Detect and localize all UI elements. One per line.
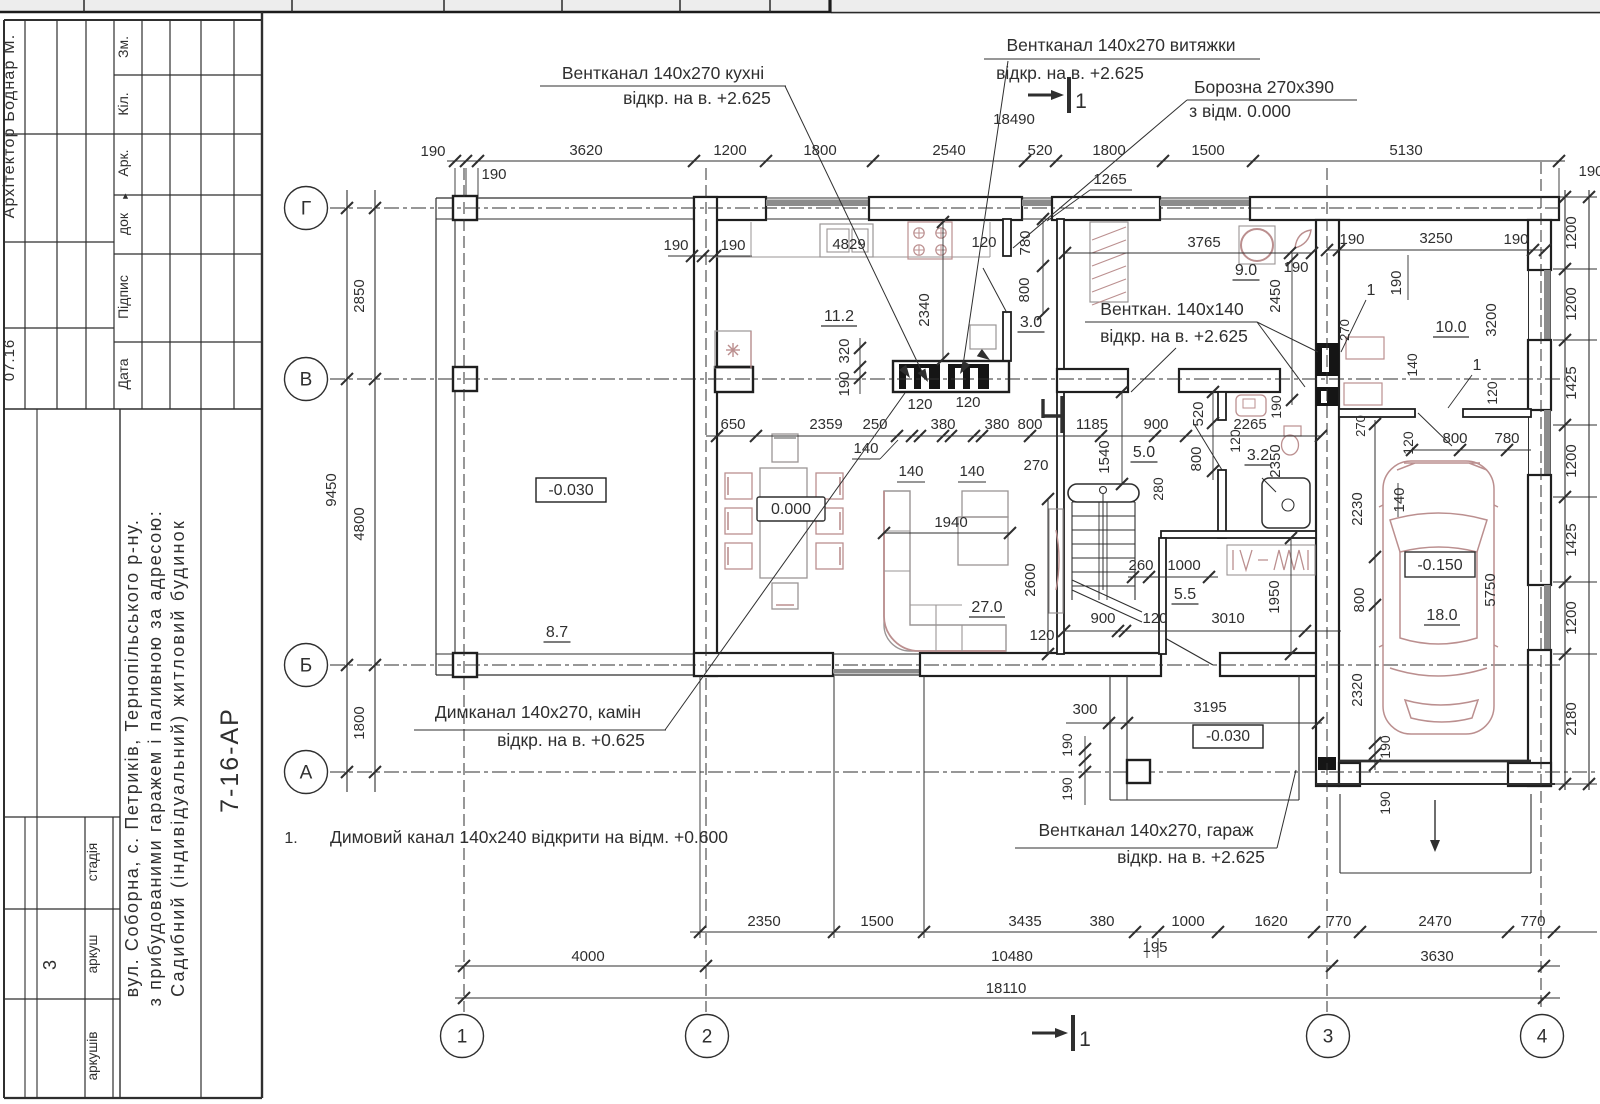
garage driveway apron — [1339, 794, 1341, 873]
svg-text:0.000: 0.000 — [771, 501, 811, 518]
dim 2600 stairs — [1047, 499, 1049, 654]
sofa corner living room — [884, 491, 1006, 651]
top table heavy separator — [828, 0, 831, 13]
porch column — [1127, 760, 1150, 783]
svg-text:1800: 1800 — [351, 706, 368, 739]
svg-text:190: 190 — [720, 237, 745, 254]
top table column separators — [83, 0, 85, 12]
axis line 3 vertical — [1326, 168, 1328, 1012]
terrace outline outer — [436, 197, 694, 199]
svg-text:7-16-АР: 7-16-АР — [216, 707, 244, 813]
svg-text:відкр. на в. +0.625: відкр. на в. +0.625 — [497, 730, 645, 750]
boiler equipment rect 2 — [1344, 383, 1382, 405]
top dim chain line — [447, 160, 1565, 162]
svg-text:140: 140 — [1391, 487, 1408, 512]
leader ventkan 140x140 a — [1257, 322, 1318, 352]
svg-text:120: 120 — [1400, 431, 1416, 455]
svg-text:190: 190 — [420, 143, 445, 160]
svg-text:1200: 1200 — [1563, 601, 1580, 634]
fireplace flue assembly outline — [893, 361, 1009, 392]
svg-text:07.16: 07.16 — [1, 339, 18, 382]
svg-text:3: 3 — [40, 960, 60, 970]
svg-text:120: 120 — [955, 394, 980, 411]
stair handrail pill — [1068, 484, 1139, 502]
right exterior wall segment a — [1528, 220, 1551, 270]
dim 2340 vertical — [942, 222, 944, 359]
svg-text:190: 190 — [663, 237, 688, 254]
coat hanger symbol — [1227, 545, 1315, 575]
svg-text:320: 320 — [836, 338, 853, 363]
svg-text:1940: 1940 — [934, 514, 967, 531]
left dim line total 9450 — [346, 190, 348, 792]
svg-text:190: 190 — [1503, 231, 1528, 248]
leader dymkanal kamin — [665, 393, 905, 730]
dim 190 kitchen corner — [668, 255, 752, 257]
right exterior wall segment c — [1528, 475, 1551, 585]
bath partition lower — [1218, 470, 1226, 538]
terrace column at Б — [453, 653, 477, 677]
top table bottom border line — [0, 11, 831, 14]
title block bottom border — [4, 1097, 262, 1099]
garage flue block near А — [1318, 757, 1336, 770]
svg-text:4: 4 — [1537, 1027, 1548, 1048]
ventilation block axis3 upper black — [1316, 343, 1339, 376]
svg-text:300: 300 — [1072, 701, 1097, 718]
svg-text:1: 1 — [457, 1027, 468, 1048]
svg-text:Димканал 140х270, камін: Димканал 140х270, камін — [435, 702, 641, 722]
svg-text:10.0: 10.0 — [1435, 319, 1466, 336]
svg-text:190: 190 — [1388, 270, 1405, 295]
top wall segment 1 — [694, 197, 766, 220]
svg-text:Садибний (індивідуальний) житл: Садибний (індивідуальний) житловий будин… — [168, 519, 188, 997]
dim 1940 sofa — [884, 532, 1010, 534]
south wall Б segment 1 — [694, 653, 833, 676]
title block lower-left rows — [4, 816, 120, 818]
bottom dim chain 2 — [455, 965, 1560, 967]
svg-text:5130: 5130 — [1389, 142, 1422, 159]
svg-text:520: 520 — [1190, 401, 1207, 426]
driveway down arrow — [1434, 800, 1436, 845]
terrace level mark -0.030 — [536, 478, 606, 502]
svg-text:190: 190 — [836, 371, 853, 396]
top wall segment 4 — [1250, 197, 1559, 220]
svg-text:3620: 3620 — [569, 142, 602, 159]
dining table — [760, 468, 807, 578]
svg-text:А: А — [300, 763, 313, 784]
svg-text:190: 190 — [1578, 163, 1600, 180]
title block horizontal rows right part — [114, 74, 262, 76]
entrance porch outline — [1109, 676, 1111, 800]
svg-text:140: 140 — [1404, 353, 1420, 377]
svg-text:1: 1 — [1075, 90, 1087, 113]
svg-text:Дата: Дата — [115, 358, 131, 389]
right exterior wall segment d — [1528, 650, 1551, 786]
dining chairs right — [816, 473, 843, 499]
svg-text:270: 270 — [1023, 457, 1048, 474]
svg-text:18.0: 18.0 — [1426, 607, 1457, 624]
svg-text:2230: 2230 — [1349, 492, 1366, 525]
svg-text:2320: 2320 — [1349, 673, 1366, 706]
section mark 1 bottom — [1032, 1032, 1062, 1035]
kitchen stove — [908, 222, 952, 259]
axis bubble 1 — [441, 1015, 484, 1058]
axis bubble В — [285, 358, 328, 401]
svg-text:Вентканал 140х270, гараж: Вентканал 140х270, гараж — [1038, 820, 1253, 840]
svg-text:3250: 3250 — [1419, 230, 1452, 247]
axis bubble 4 — [1521, 1015, 1564, 1058]
svg-text:Арк.: Арк. — [115, 149, 131, 176]
svg-text:Підпис: Підпис — [115, 275, 131, 319]
right wall window b — [1528, 410, 1530, 475]
svg-text:2: 2 — [702, 1027, 713, 1048]
svg-text:260: 260 — [1128, 557, 1153, 574]
svg-text:120: 120 — [1227, 429, 1243, 453]
kitchen sink — [820, 224, 873, 257]
svg-text:2850: 2850 — [351, 279, 368, 312]
right chain extension lines — [1553, 196, 1597, 198]
sofa armrest — [962, 491, 1008, 517]
dining chair bottom — [772, 583, 798, 609]
svg-text:1620: 1620 — [1254, 913, 1287, 930]
fireplace flue slots left — [906, 368, 914, 389]
stair chain dim line — [1064, 630, 1341, 632]
title block row bottom — [4, 408, 262, 410]
svg-text:док: док — [115, 212, 131, 235]
axis bubble А — [285, 751, 328, 794]
bath bottom partition — [1161, 531, 1316, 538]
svg-text:1000: 1000 — [1171, 913, 1204, 930]
level change symbol bold — [1041, 399, 1044, 418]
svg-text:відкр. на в. +2.625: відкр. на в. +2.625 — [996, 63, 1144, 83]
plant in corner — [1295, 230, 1311, 248]
svg-text:аркушів: аркушів — [85, 1032, 100, 1081]
garage south wall segment right — [1508, 763, 1551, 786]
annotation borozna leader line — [1187, 99, 1357, 101]
interior dim chain below В — [706, 435, 1321, 437]
party wall axis 3 — [1316, 220, 1339, 786]
svg-text:1425: 1425 — [1563, 523, 1580, 556]
wardrobe hatched flue block — [1090, 222, 1128, 302]
svg-text:520: 520 — [1027, 142, 1052, 159]
axis bubble Б — [285, 644, 328, 687]
title block outer left border — [3, 20, 5, 1098]
svg-text:250: 250 — [862, 416, 887, 433]
leader ventkanal kitchen — [785, 86, 925, 378]
svg-text:800: 800 — [1351, 587, 1368, 612]
boiler equipment rect 1 — [1346, 337, 1384, 359]
svg-text:відкр. на в. +2.625: відкр. на в. +2.625 — [623, 88, 771, 108]
right dim chain line inner — [1564, 190, 1566, 790]
svg-text:8.7: 8.7 — [546, 624, 568, 641]
stair treads — [1072, 501, 1135, 503]
svg-text:2350: 2350 — [1267, 444, 1284, 477]
svg-text:аркуш: аркуш — [85, 935, 100, 974]
svg-text:800: 800 — [1188, 446, 1205, 471]
svg-text:-0.030: -0.030 — [1206, 728, 1250, 745]
entrance door swing — [1165, 638, 1213, 665]
boiler room door swing — [1418, 413, 1452, 446]
svg-text:1500: 1500 — [1191, 142, 1224, 159]
door swing room 3.0 — [983, 268, 1007, 313]
terrace column at Г — [453, 196, 477, 220]
svg-text:9450: 9450 — [323, 473, 340, 506]
left dim line storey chain — [374, 190, 376, 792]
svg-text:вул. Соборна, с. Петриків, Тер: вул. Соборна, с. Петриків, Тернопільсько… — [122, 519, 142, 998]
svg-text:770: 770 — [1520, 913, 1545, 930]
svg-text:з відм. 0.000: з відм. 0.000 — [1189, 101, 1291, 121]
svg-text:3.2: 3.2 — [1247, 447, 1269, 464]
svg-text:1540: 1540 — [1096, 440, 1113, 473]
title block right border — [261, 12, 263, 1098]
svg-text:5.0: 5.0 — [1133, 444, 1155, 461]
svg-text:Димовий канал 140х240 відкрити: Димовий канал 140х240 відкрити на відм. … — [330, 827, 728, 847]
svg-text:190: 190 — [1059, 733, 1075, 757]
svg-text:4800: 4800 — [351, 507, 368, 540]
garage south wall segment left — [1339, 763, 1360, 786]
svg-text:1950: 1950 — [1266, 580, 1283, 613]
svg-text:2600: 2600 — [1022, 563, 1039, 596]
svg-text:140: 140 — [959, 463, 984, 480]
boiler room partition left — [1339, 409, 1415, 417]
svg-text:120: 120 — [971, 234, 996, 251]
svg-text:2470: 2470 — [1418, 913, 1451, 930]
svg-text:5750: 5750 — [1482, 573, 1499, 606]
axis line А horizontal — [330, 771, 1596, 773]
leader arrow into fireplace flue 2 — [918, 369, 928, 383]
terrace porch extension line a — [833, 676, 835, 938]
level mark 0.000 — [757, 497, 825, 521]
leader arrow into fireplace flue 4 — [977, 349, 990, 360]
leader arrow into fireplace flue 3 — [960, 361, 970, 375]
hall left partition — [1159, 538, 1166, 654]
garage side dim line — [1374, 420, 1376, 770]
svg-text:3200: 3200 — [1483, 303, 1500, 336]
axis line Г horizontal — [330, 207, 1560, 209]
top wall window kitchen — [766, 197, 869, 199]
south wall Б segment 2 — [920, 653, 1161, 676]
ventilation block axis3 lower black — [1316, 387, 1338, 406]
axis2 wall extension line — [699, 676, 701, 938]
svg-text:В: В — [300, 370, 313, 391]
kitchen counter divider — [750, 222, 752, 257]
svg-text:2540: 2540 — [932, 142, 965, 159]
svg-text:1185: 1185 — [1076, 416, 1108, 433]
svg-text:780: 780 — [1494, 430, 1519, 447]
porch dim line — [1066, 722, 1322, 724]
title block lower verticals — [36, 409, 38, 1098]
svg-text:1: 1 — [1367, 282, 1376, 299]
svg-text:270: 270 — [1353, 415, 1368, 437]
svg-text:1265: 1265 — [1093, 171, 1126, 188]
washing machine circle room 9.0 — [1239, 226, 1275, 264]
top wall segment 3 — [1052, 197, 1160, 220]
svg-text:4000: 4000 — [571, 948, 604, 965]
shower tray — [1262, 478, 1310, 528]
svg-text:Венткан. 140х140: Венткан. 140х140 — [1100, 299, 1244, 319]
leader ventkanal garage — [1277, 770, 1296, 848]
svg-text:5.5: 5.5 — [1174, 586, 1196, 603]
svg-text:190: 190 — [1377, 735, 1393, 759]
top wall window 2 — [1022, 197, 1052, 199]
axis line 1 vertical — [463, 168, 465, 1012]
svg-text:2450: 2450 — [1267, 279, 1284, 312]
tv cabinet — [1049, 509, 1063, 613]
svg-text:2359: 2359 — [809, 416, 842, 433]
svg-text:900: 900 — [1143, 416, 1168, 433]
axis bubble Г — [285, 187, 328, 230]
axis line 2 vertical — [705, 168, 707, 1012]
svg-text:380: 380 — [1089, 913, 1114, 930]
svg-text:Борозна 270х390: Борозна 270х390 — [1194, 77, 1334, 97]
left exterior wall axis 2 — [694, 197, 717, 676]
svg-text:Архітектор Боднар М.: Архітектор Боднар М. — [1, 34, 18, 219]
bath partition upper — [1218, 392, 1226, 420]
svg-text:190: 190 — [1059, 777, 1075, 801]
svg-text:2350: 2350 — [747, 913, 780, 930]
axis line Б horizontal — [330, 664, 1560, 666]
door swing room 9.0 — [1131, 348, 1176, 392]
svg-text:Вентканал 140х270 кухні: Вентканал 140х270 кухні — [562, 63, 764, 83]
south wall terrace door — [833, 653, 920, 655]
svg-text:190: 190 — [1268, 395, 1284, 419]
svg-text:800: 800 — [1442, 430, 1467, 447]
svg-text:2340: 2340 — [916, 293, 933, 326]
sofa chaise — [958, 517, 1008, 565]
leader ventkanal vytyazhky — [962, 61, 1008, 372]
svg-text:120: 120 — [907, 396, 932, 413]
svg-text:Зм.: Зм. — [115, 36, 131, 58]
title block top border — [4, 19, 262, 21]
right dim chain line outer — [1588, 190, 1590, 790]
svg-text:140: 140 — [898, 463, 923, 480]
svg-text:1.: 1. — [284, 830, 297, 847]
kitchen flue box with asterisk — [715, 331, 751, 368]
top wall segment 2 — [869, 197, 1022, 220]
partition room 3.0 left lower — [1003, 312, 1011, 361]
svg-text:відкр. на в. +2.625: відкр. на в. +2.625 — [1117, 847, 1265, 867]
svg-text:стадія: стадія — [85, 843, 100, 881]
svg-text:1500: 1500 — [860, 913, 893, 930]
fireplace flue black block left — [899, 364, 940, 389]
leader ventkan 140x140 b — [1257, 322, 1305, 387]
terrace outline inner — [454, 219, 456, 654]
svg-text:770: 770 — [1326, 913, 1351, 930]
axis line 4 vertical — [1540, 162, 1542, 1012]
svg-text:650: 650 — [720, 416, 745, 433]
terrace column at В — [453, 367, 477, 391]
svg-text:270: 270 — [1337, 319, 1352, 341]
svg-text:Кіл.: Кіл. — [115, 92, 131, 115]
svg-text:800: 800 — [1017, 416, 1042, 433]
leader arrow into fireplace flue 1 — [899, 365, 910, 378]
svg-text:1000: 1000 — [1167, 557, 1200, 574]
wall on axis В kitchen side — [715, 367, 753, 392]
svg-text:190: 190 — [1377, 791, 1393, 815]
stair walk line with start circle — [1100, 487, 1107, 494]
garage level mark -0.150 — [1405, 552, 1475, 577]
svg-text:380: 380 — [984, 416, 1009, 433]
kitchen fridge square — [970, 325, 996, 349]
svg-text:380: 380 — [930, 416, 955, 433]
bottom dim chain 1 — [690, 931, 1597, 933]
boiler room partition right — [1463, 409, 1531, 417]
svg-text:Г: Г — [301, 199, 311, 220]
svg-text:195: 195 — [1142, 939, 1167, 956]
svg-text:120: 120 — [1029, 627, 1054, 644]
room 10.0 dim chain — [1327, 249, 1545, 251]
svg-text:1: 1 — [1079, 1028, 1091, 1051]
dining chair top — [772, 434, 798, 462]
svg-text:190: 190 — [481, 166, 506, 183]
svg-text:3765: 3765 — [1187, 234, 1220, 251]
toilet — [1284, 426, 1301, 436]
fireplace flue black block right — [948, 364, 989, 389]
svg-text:3: 3 — [1323, 1027, 1334, 1048]
wall on axis В segment hall — [1057, 369, 1128, 392]
top wall window 3 — [1160, 197, 1250, 199]
svg-text:9.0: 9.0 — [1235, 262, 1257, 279]
opening dim line vertical — [1042, 219, 1044, 314]
svg-text:відкр. на в. +2.625: відкр. на в. +2.625 — [1100, 326, 1248, 346]
bottom dim chain 3 overall — [455, 997, 1560, 999]
svg-text:1425: 1425 — [1563, 366, 1580, 399]
stair stringers — [1071, 502, 1073, 600]
svg-text:800: 800 — [1016, 277, 1033, 302]
svg-text:Б: Б — [300, 656, 312, 677]
svg-text:3010: 3010 — [1211, 610, 1244, 627]
title block horizontal rows left part — [4, 133, 114, 135]
svg-text:120: 120 — [1484, 381, 1500, 405]
fireplace flue slots right — [955, 368, 963, 389]
svg-text:Вентканал 140х270 витяжки: Вентканал 140х270 витяжки — [1006, 35, 1235, 55]
svg-text:3630: 3630 — [1420, 948, 1453, 965]
stair break line — [1072, 580, 1142, 612]
axis bubble 2 — [686, 1015, 729, 1058]
leader borozna diagonal — [1013, 100, 1187, 248]
svg-text:-0.030: -0.030 — [548, 482, 593, 499]
wall on axis В segment bath — [1179, 369, 1280, 392]
kitchen counter front edge — [715, 256, 990, 258]
partition room 3.0 left upper — [1003, 219, 1011, 256]
svg-text:1: 1 — [1473, 357, 1482, 374]
section mark 1 top — [1028, 94, 1058, 97]
svg-text:10480: 10480 — [991, 948, 1033, 965]
title block verticals upper table — [24, 20, 26, 409]
axis line В horizontal — [330, 378, 1565, 380]
svg-text:280: 280 — [1150, 477, 1166, 501]
svg-text:1800: 1800 — [803, 142, 836, 159]
svg-text:11.2: 11.2 — [824, 308, 854, 325]
right exterior wall segment b — [1528, 340, 1551, 410]
svg-text:1200: 1200 — [1563, 287, 1580, 320]
svg-text:2180: 2180 — [1563, 702, 1580, 735]
svg-text:18110: 18110 — [986, 980, 1027, 997]
svg-text:900: 900 — [1090, 610, 1115, 627]
bath door swing — [1194, 424, 1222, 470]
right wall window a — [1528, 270, 1530, 340]
svg-text:з прибудованими гаражем і пали: з прибудованими гаражем і паливною за ад… — [145, 510, 165, 1007]
top sheet strip (cut-off table above) — [0, 0, 1600, 12]
svg-text:3.0: 3.0 — [1020, 314, 1042, 331]
terrace porch extension line b — [923, 676, 925, 938]
porch level mark -0.030 — [1193, 725, 1263, 748]
svg-text:1200: 1200 — [1563, 444, 1580, 477]
car in garage — [1379, 461, 1498, 734]
svg-text:-0.150: -0.150 — [1417, 557, 1462, 574]
axis bubble 3 — [1307, 1015, 1350, 1058]
svg-text:27.0: 27.0 — [971, 599, 1002, 616]
wall line on axis А right part — [1316, 783, 1555, 785]
